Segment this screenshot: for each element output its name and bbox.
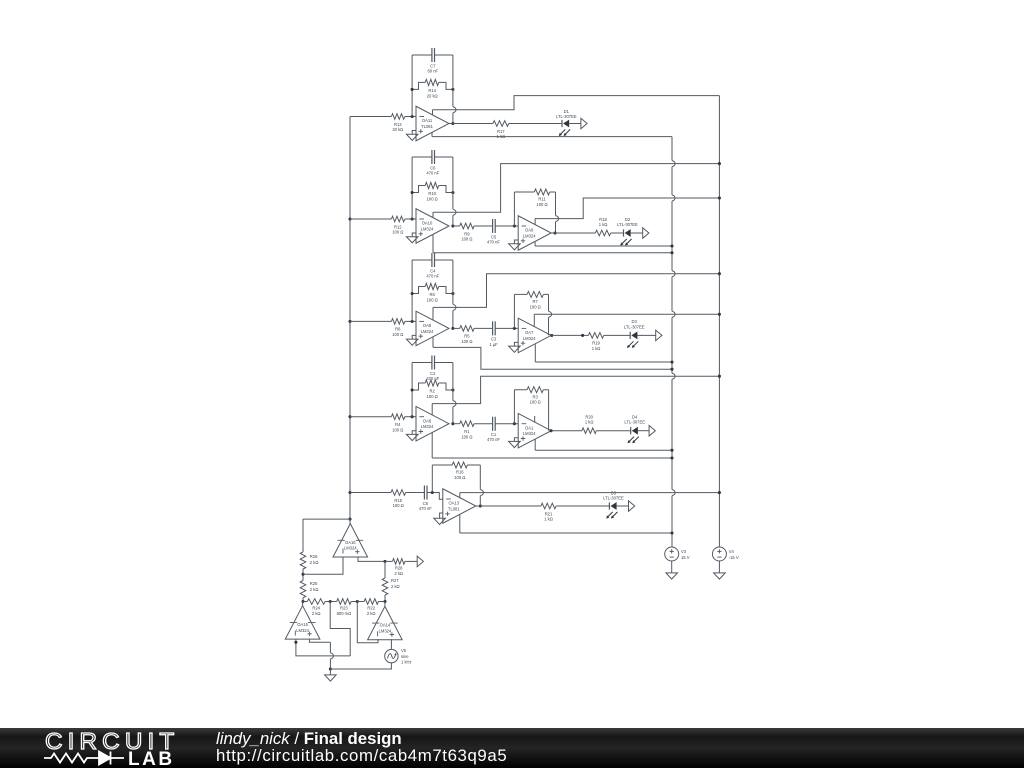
wire: stage 4 feedback loop right vertical bbox=[453, 363, 456, 424]
wire: OA13 V+ pin to +15V bus bbox=[460, 515, 672, 533]
node: input bus junction stage 3 bbox=[348, 320, 351, 323]
node: R16 left junction bbox=[431, 491, 434, 494]
port: input network flag bbox=[417, 556, 423, 567]
wire: R3 top leads bbox=[514, 389, 548, 391]
resistor R13 (20 kΩ) stage 1 input bbox=[391, 114, 404, 132]
resistor R19 (1 kΩ) LED current limit bbox=[588, 333, 603, 351]
node: -15V bus junction 1 bbox=[718, 162, 721, 165]
wire: R4 to inverting input node bbox=[405, 416, 416, 418]
wire: capacitor C4 top leads bbox=[412, 259, 453, 261]
LED D1 label bbox=[556, 109, 577, 119]
node: bus to OA16 junction bbox=[348, 518, 351, 521]
node: stage 1 inverting input junction bbox=[411, 115, 414, 118]
wire: R16 leads bbox=[432, 464, 480, 466]
resistor R25 (2 kΩ) bbox=[300, 581, 318, 598]
wire: capacitor C6 top leads bbox=[412, 156, 453, 158]
LED D4 label bbox=[624, 414, 645, 424]
resistor R22 (2 kΩ) bbox=[357, 599, 385, 616]
wire: R16 loop right vertical bbox=[480, 465, 483, 506]
op-amp OA7 (LM324) bbox=[518, 318, 551, 353]
wire: C5 to OA9 inverting input bbox=[495, 225, 518, 227]
node: -15V bus junction 5 bbox=[718, 375, 721, 378]
wire: R20 to D4 bbox=[596, 430, 630, 432]
op-amp OA13 (TL081) bbox=[443, 489, 476, 524]
ground at OA13 non-inverting input bbox=[434, 513, 446, 525]
wire: R3 loop left vertical bbox=[513, 390, 515, 424]
op-amp OA16 (LM324) bbox=[333, 524, 368, 557]
wire: stage 3 output to R5 bbox=[453, 327, 460, 329]
ground at OA10 non-inverting input bbox=[406, 233, 418, 243]
wire: ground node stub bbox=[329, 669, 331, 675]
node: +15V bus junction 6 bbox=[670, 456, 673, 459]
resistor R26 (2 kΩ) bbox=[300, 552, 318, 569]
wire: C8 to R16 junction and jog to OA13 inverting input bbox=[427, 493, 443, 500]
LED D2 (LTL-307EE) bbox=[620, 229, 631, 246]
node: stage 3 LED row output junction bbox=[550, 334, 553, 337]
node: input bus junction stage 2 bbox=[348, 217, 351, 220]
resistor R21 (1 kΩ) LED current limit bbox=[541, 503, 556, 521]
resistor R24 (2 kΩ) bbox=[303, 599, 330, 616]
wire: +15V bus vertical (V3 net) bbox=[672, 137, 675, 547]
node: stage 4 output junction bbox=[451, 422, 454, 425]
wire: OA1 V+ pin to +15V bus bbox=[535, 439, 672, 450]
node: R10 right junction bbox=[451, 191, 454, 194]
LED D3 label bbox=[624, 319, 645, 329]
resistor R17 (1 kΩ) LED current limit bbox=[493, 121, 509, 139]
wire: OA7 V- pin to -15V bus bbox=[534, 314, 719, 327]
wire: OA1 output to R20 bbox=[551, 430, 582, 432]
node: stage 3 inverting input junction bbox=[411, 320, 414, 323]
wire: R11 loop left vertical bbox=[513, 192, 515, 226]
capacitor C1 (470 nF) interstage bbox=[487, 417, 500, 442]
wire: R1 to C1 bbox=[474, 423, 493, 425]
wire: -15V bus vertical (V4 net) bbox=[718, 96, 720, 547]
wire: stage 1 input from bus to R13 bbox=[350, 116, 391, 118]
node: junction before R19 bbox=[581, 334, 584, 337]
ground at OA6 non-inverting input bbox=[406, 431, 418, 441]
node: stage 2 LED row output junction bbox=[553, 231, 556, 234]
node: R23/R22 junction bbox=[356, 600, 359, 603]
node: OA15 inverting pin dot bbox=[294, 641, 297, 644]
resistor R1 (100 Ω) interstage bbox=[460, 421, 474, 439]
wire: R12 to inverting input node bbox=[405, 218, 416, 220]
ground at OA8 non-inverting input bbox=[406, 335, 418, 345]
wire: stage 4 feedback loop left vertical bbox=[411, 363, 413, 417]
wire: R5 to C3 bbox=[474, 327, 493, 329]
logo diode bbox=[97, 752, 124, 765]
wire: R15 to C8 bbox=[406, 492, 425, 494]
node: R2 right junction bbox=[451, 388, 454, 391]
resistor R4 (100 Ω) stage 4 input bbox=[391, 414, 404, 432]
wire: OA13 output to R21 bbox=[476, 505, 541, 507]
node: R6 left junction bbox=[411, 292, 414, 295]
wire: OA9 output to R18 bbox=[551, 232, 595, 234]
node: -15V bus junction 4 bbox=[718, 313, 721, 316]
wire: stage 2 input from bus to R12 bbox=[350, 218, 391, 220]
wire: R26 to R25 junction bbox=[302, 569, 304, 581]
wire: OA15 output stub bbox=[302, 602, 304, 606]
op-amp OA15 (LM324) bbox=[285, 606, 320, 639]
wire: V5 to ground node bbox=[330, 663, 391, 669]
wire: R13 to inverting input node bbox=[405, 116, 416, 118]
node: +15V bus junction 4 bbox=[670, 368, 673, 371]
wire: R11 loop right vertical bbox=[556, 192, 559, 233]
node: OA14 output junction bbox=[383, 600, 386, 603]
wire: OA6 V- pin to -15V bus bbox=[432, 376, 719, 415]
resistor R27 (2 kΩ) bbox=[382, 561, 399, 601]
node: stage 2 output junction bbox=[451, 224, 454, 227]
wire: V4 to ground bbox=[718, 561, 720, 573]
resistor R15 (100 Ω) stage 5 input bbox=[391, 490, 406, 508]
wire: D2 to output port bbox=[631, 232, 643, 234]
ground below input network bbox=[325, 675, 337, 681]
wire: OA14 output stub bbox=[384, 602, 386, 607]
node: OA9 inverting input junction bbox=[513, 224, 516, 227]
wire: OA9 V+ pin to +15V bus bbox=[535, 242, 672, 246]
node: +15V bus junction 1 bbox=[670, 244, 673, 247]
wire: OA11 V- pin to -15V bus bbox=[433, 96, 720, 115]
wire: OA16 inverting input to R25/R26 junction bbox=[303, 557, 343, 574]
resistor R6 (100 Ω) feedback bbox=[412, 283, 453, 302]
wire: R3 loop right vertical bbox=[548, 390, 550, 431]
wire: R25 to OA15 output junction bbox=[302, 598, 304, 602]
resistor R3 (100 Ω) feedback bbox=[527, 387, 543, 405]
resistor R18 (1 kΩ) LED current limit bbox=[595, 217, 610, 236]
wire: stage 2 feedback loop right vertical bbox=[453, 157, 456, 226]
resistor R5 (100 Ω) interstage bbox=[460, 326, 474, 344]
capacitor C5 (470 nF) interstage bbox=[487, 219, 500, 244]
wire: R7 top leads bbox=[514, 293, 548, 295]
wire: R19 to D3 bbox=[604, 334, 631, 336]
node: -15V bus junction 2 bbox=[718, 196, 721, 199]
capacitor C2 (470 nF) feedback bbox=[426, 356, 439, 381]
wire: stage 3 input from bus to R8 bbox=[350, 320, 391, 322]
node: R14 left junction bbox=[411, 88, 414, 91]
wire: OA7 V+ pin to +15V bus bbox=[535, 344, 672, 362]
node: stage 4 inverting input junction bbox=[411, 415, 414, 418]
capacitor C4 (470 nF) feedback bbox=[426, 253, 439, 278]
wire: OA15 non-inverting input to ground node bbox=[309, 639, 333, 669]
wire: OA14 inverting input to R23/R22 junction bbox=[357, 602, 378, 643]
resistor R12 (100 Ω) stage 2 input bbox=[391, 216, 404, 234]
node: input bus junction stage 4 bbox=[348, 415, 351, 418]
resistor R7 (100 Ω) feedback bbox=[527, 291, 543, 309]
wire: OA10 V+ pin to +15V bus bbox=[433, 235, 672, 253]
capacitor C6 (470 nF) feedback bbox=[426, 150, 439, 175]
wire: V3 to ground bbox=[671, 561, 673, 573]
resistor R11 (100 Ω) feedback bbox=[534, 189, 549, 207]
wire: OA11 output to R17 bbox=[449, 123, 493, 125]
ground at OA1 non-inverting input bbox=[509, 438, 521, 448]
capacitor C8 (470 nF) stage 5 input bbox=[419, 486, 432, 511]
footer project title bbox=[216, 730, 507, 765]
wire: C1 to OA1 inverting input bbox=[495, 423, 518, 425]
CircuitLab logo text CIRCUIT bbox=[45, 729, 179, 756]
wire: OA6 V+ pin to +15V bus bbox=[432, 432, 672, 458]
wire: C3 to OA7 inverting input bbox=[495, 327, 518, 329]
wire: R17 to D1 bbox=[509, 123, 562, 125]
resistor R8 (100 Ω) stage 3 input bbox=[391, 319, 404, 337]
wire: OA13 V- pin to -15V bus bbox=[460, 493, 720, 498]
wire: stage 2 feedback loop left vertical bbox=[411, 157, 413, 219]
wire: stage 1 feedback loop left vertical bbox=[411, 55, 413, 117]
logo resistor zigzag bbox=[44, 754, 97, 763]
capacitor C3 (1 µF) interstage bbox=[489, 321, 498, 346]
wire: R21 to D5 bbox=[556, 505, 609, 507]
op-amp OA1 (LM324) bbox=[518, 413, 551, 448]
node: input bus junction stage 5 bbox=[348, 491, 351, 494]
port: stage 3 output flag bbox=[656, 330, 662, 341]
node: stage 2 inverting input junction bbox=[411, 217, 414, 220]
wire: R11 top leads bbox=[514, 191, 555, 193]
wire: OA10 V- pin to -15V bus bbox=[433, 164, 719, 218]
node: OA1 inverting input junction bbox=[513, 422, 516, 425]
node: -15V bus junction 3 bbox=[718, 272, 721, 275]
node: OA7 inverting input junction bbox=[513, 327, 516, 330]
wire: stage 5 input from bus to R15 bbox=[350, 492, 391, 494]
footer bar bbox=[0, 728, 1024, 768]
wire: stage 2 output to R9 bbox=[453, 225, 460, 227]
node: R10 left junction bbox=[411, 191, 414, 194]
LED D4 (LTL-307EE) bbox=[628, 427, 639, 444]
ground below V3 bbox=[666, 573, 678, 579]
wire: stage 3 feedback loop right vertical bbox=[453, 260, 456, 328]
node: R27/R28/OA16+ junction bbox=[383, 560, 386, 563]
op-amp OA10 (LM324) bbox=[416, 209, 449, 244]
op-amp OA6 (LM324) bbox=[416, 406, 449, 441]
node: stage 3 output junction bbox=[451, 327, 454, 330]
resistor R9 (100 Ω) interstage bbox=[460, 223, 474, 241]
op-amp OA14 (LM324) bbox=[368, 606, 403, 639]
LED D2 label bbox=[617, 217, 638, 227]
wire: R16 loop left vertical bbox=[431, 465, 433, 493]
port: stage 4 output flag bbox=[649, 425, 655, 436]
wire: R7 loop right vertical bbox=[549, 294, 552, 335]
node: R6 right junction bbox=[451, 292, 454, 295]
voltage source V3 (15 V) bbox=[665, 547, 690, 561]
resistor R28 (2 kΩ) bbox=[385, 559, 417, 576]
ground below V4 bbox=[714, 573, 726, 579]
resistor R14 (20 kΩ) feedback bbox=[412, 79, 453, 98]
node: stage 4 LED row output junction bbox=[550, 429, 553, 432]
node: input bus vertical (net IN) bbox=[349, 117, 351, 520]
wire: OA8 V+ pin to +15V bus bbox=[433, 337, 672, 369]
wire: OA7 output to R19 bbox=[551, 334, 588, 336]
node: -15V bus junction 6 bbox=[718, 491, 721, 494]
wire: stage 4 input from bus to R4 bbox=[350, 416, 391, 418]
wire: bus junction left to R26 column bbox=[303, 518, 350, 520]
wire: stage 1 feedback loop right vertical bbox=[453, 55, 456, 124]
node: +15V bus junction 2 bbox=[670, 251, 673, 254]
wire: D4 to output port bbox=[638, 430, 649, 432]
wire: stage 3 feedback loop left vertical bbox=[411, 260, 413, 321]
node: OA15 output junction bbox=[301, 600, 304, 603]
voltage source V5 (sine 1 kHz) bbox=[385, 648, 412, 665]
node: +15V bus junction 7 bbox=[670, 531, 673, 534]
resistor R2 (100 Ω) feedback bbox=[412, 380, 453, 399]
wire: OA16 non-inverting input to R27/R28 junction bbox=[358, 557, 385, 561]
wire: R8 to inverting input node bbox=[405, 320, 416, 322]
wire: R7 loop left vertical bbox=[513, 294, 515, 328]
wire: OA14 non-inverting input to V5 bbox=[390, 639, 392, 649]
wire: R18 to D2 bbox=[611, 232, 624, 234]
node: +15V bus junction 3 bbox=[670, 360, 673, 363]
wire: OA8 V- pin to -15V bus bbox=[433, 274, 719, 320]
pin: OA1 V- stub (unconnected) bbox=[534, 416, 536, 422]
wire: D5 to output port bbox=[617, 505, 629, 507]
wire: R26 column upper lead bbox=[302, 519, 304, 552]
capacitor C7 (60 nF) feedback bbox=[428, 48, 439, 73]
voltage source V4 (-15 V) bbox=[712, 547, 738, 561]
wire: stage 4 output to R1 bbox=[453, 423, 460, 425]
node: ground node junction bbox=[329, 667, 332, 670]
node: stage 1 output junction bbox=[451, 122, 454, 125]
port: stage 2 output flag bbox=[643, 228, 649, 239]
LED D5 label bbox=[603, 490, 624, 500]
wire: OA15 inverting input to R24/R23 junction (Z path) bbox=[296, 602, 350, 656]
wire: OA16 output stub bbox=[349, 519, 351, 524]
wire: D1 to output port bbox=[569, 123, 581, 125]
op-amp OA9 (LM324) bbox=[518, 216, 551, 251]
op-amp OA11 (TL081) bbox=[416, 106, 449, 141]
ground at OA9 non-inverting input bbox=[509, 240, 521, 250]
node: R2 left junction bbox=[411, 388, 414, 391]
node: +15V bus junction 5 bbox=[670, 449, 673, 452]
LED D5 (LTL-307EE) bbox=[606, 502, 617, 518]
resistor R16 (100 Ω) feedback bbox=[452, 462, 467, 480]
resistor R23 (800 mΩ) bbox=[330, 599, 357, 616]
LED D1 (LTL-307EE) bbox=[559, 120, 570, 137]
node: R14 right junction bbox=[451, 88, 454, 91]
wire: capacitor C2 top leads bbox=[412, 362, 453, 364]
port: stage 5 output flag bbox=[629, 501, 635, 512]
resistor R10 (100 Ω) feedback bbox=[412, 182, 453, 201]
resistor R20 (1 kΩ) LED current limit bbox=[582, 414, 597, 433]
ground at OA11 non-inverting input bbox=[406, 131, 418, 141]
wire: OA9 V- pin to -15V bus bbox=[535, 198, 719, 225]
wire: D3 to output port bbox=[637, 334, 655, 336]
wire: capacitor C7 top leads bbox=[412, 54, 453, 56]
port: stage 1 output flag bbox=[581, 118, 587, 129]
op-amp OA8 (LM324) bbox=[416, 311, 449, 346]
node: R24/R23 junction bbox=[329, 600, 332, 603]
wire: OA11 V+ pin to +15V bus bbox=[432, 132, 672, 136]
node: stage 5 output junction bbox=[479, 504, 482, 507]
LED D3 (LTL-307EE) bbox=[627, 332, 638, 349]
wire: R9 to C5 bbox=[474, 225, 493, 227]
node: R26/R25/OA16- junction bbox=[301, 573, 304, 576]
ground at OA7 non-inverting input bbox=[509, 342, 521, 352]
